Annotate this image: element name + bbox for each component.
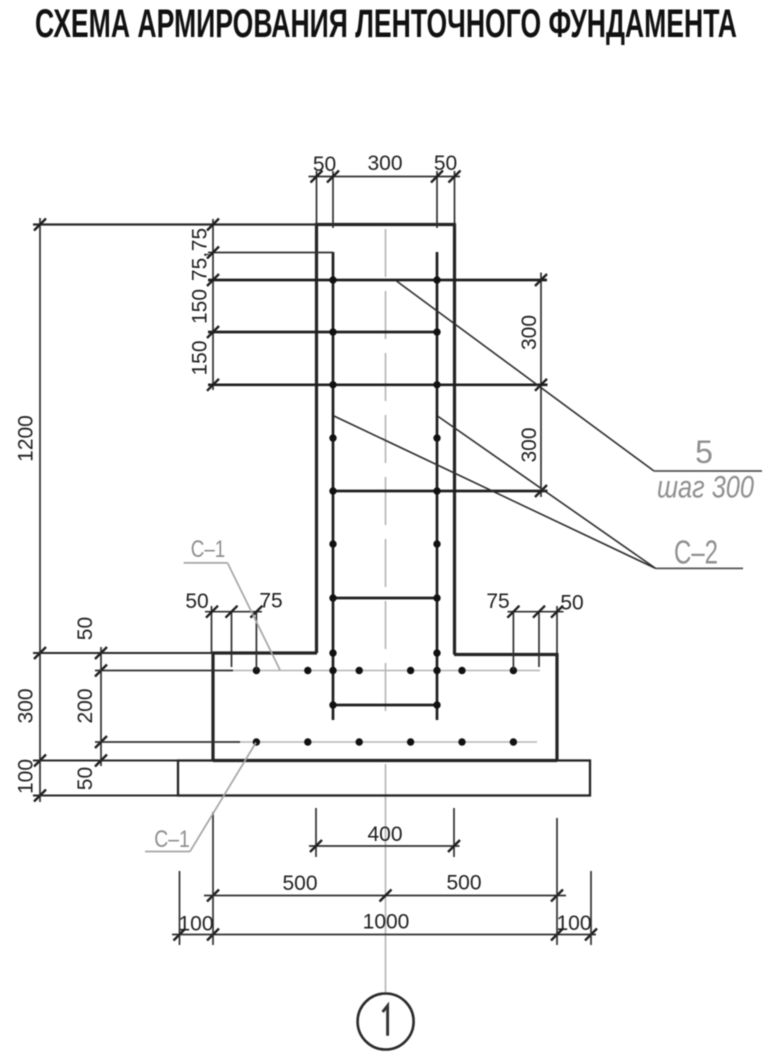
svg-text:100: 100 <box>556 912 591 935</box>
callout C-2 underline <box>656 567 743 569</box>
svg-text:200: 200 <box>74 688 97 723</box>
stem left wall <box>315 225 318 654</box>
bottom extension footing right <box>556 818 558 945</box>
C-1 upper leader <box>228 563 281 670</box>
right chain ticks <box>535 274 547 497</box>
leader line C-2 from left bar <box>334 416 656 568</box>
svg-text:50: 50 <box>74 767 97 790</box>
mid dim line left 50-75 <box>205 611 262 613</box>
bedding bottom extension to chain <box>33 795 178 797</box>
svg-text:150: 150 <box>189 340 212 375</box>
left inner chain line x=101 <box>100 647 102 766</box>
svg-text:1000: 1000 <box>363 911 410 934</box>
top dimension line 50-300-50 <box>309 176 461 178</box>
dim 400 line <box>309 845 460 847</box>
svg-text:300: 300 <box>518 315 541 350</box>
mid dim right ticks <box>507 606 563 618</box>
svg-text:С–2: С–2 <box>674 534 718 571</box>
svg-text:75: 75 <box>486 590 509 613</box>
dim 500-500 line <box>204 895 566 897</box>
svg-text:50: 50 <box>74 617 97 640</box>
left inner chain ticks <box>95 647 107 767</box>
footing top left edge <box>213 651 317 654</box>
lower mesh bar C-1 <box>235 741 537 743</box>
stem right wall <box>453 225 456 655</box>
footing top extension to chains <box>33 652 213 654</box>
svg-text:1200: 1200 <box>15 415 38 462</box>
rebar top mark line <box>208 252 333 254</box>
dim 100-1000-100 line <box>172 934 596 936</box>
lower mesh dots <box>253 738 517 745</box>
svg-text:С–1: С–1 <box>191 536 226 563</box>
chain extension at 670 <box>95 670 233 672</box>
tie at 705 lowest <box>333 704 437 707</box>
rebar dots in stem <box>329 276 440 708</box>
svg-text:50: 50 <box>185 590 208 613</box>
svg-text:100: 100 <box>178 913 213 936</box>
right chain line x=541 <box>540 273 542 498</box>
line at stem top to chain <box>33 223 316 225</box>
svg-text:5: 5 <box>695 434 713 470</box>
upper mesh dots <box>253 667 517 674</box>
top dim extension lines <box>317 171 455 228</box>
svg-text:500: 500 <box>446 872 481 895</box>
svg-text:400: 400 <box>367 823 402 846</box>
dim 400 ticks <box>310 840 460 852</box>
dim 500 ticks <box>207 890 563 902</box>
svg-text:300: 300 <box>15 688 38 723</box>
section mark digit <box>383 1006 388 1036</box>
top dim ticks <box>311 171 461 183</box>
leader line to stirrup 5 <box>397 281 655 471</box>
svg-text:75: 75 <box>189 228 212 251</box>
tie at 280 <box>208 279 547 282</box>
svg-text:50: 50 <box>434 152 457 175</box>
left outer chain ticks <box>34 219 46 802</box>
left outer chain line x=40 <box>39 218 41 802</box>
footing left edge <box>211 652 214 761</box>
svg-text:100: 100 <box>15 759 38 794</box>
C-1 lower underline <box>145 851 190 853</box>
bottom extension bedding left <box>179 871 181 945</box>
footing right edge <box>555 653 558 761</box>
tie at 332 <box>208 331 437 334</box>
leader line C-2 from right bar <box>438 416 656 568</box>
svg-text:300: 300 <box>518 427 541 462</box>
footing top right edge <box>454 653 557 656</box>
tie at 491 <box>333 490 548 493</box>
centerline of section <box>385 229 387 722</box>
svg-text:шаг 300: шаг 300 <box>657 469 754 505</box>
dim 400 extensions <box>316 808 454 857</box>
C-1 lower leader <box>190 743 256 852</box>
svg-text:75: 75 <box>259 590 282 613</box>
callout 5 underline <box>654 470 762 472</box>
tie at 598 <box>333 597 437 600</box>
C-1 upper underline <box>184 562 228 564</box>
bottom extension footing left <box>212 812 214 945</box>
upper mesh bar C-1 <box>225 670 540 672</box>
mid dim right extensions <box>513 606 557 670</box>
footing bottom extension to chains <box>33 760 178 762</box>
svg-text:СХЕМА АРМИРОВАНИЯ ЛЕНТОЧНОГО Ф: СХЕМА АРМИРОВАНИЯ ЛЕНТОЧНОГО ФУНДАМЕНТА <box>35 2 737 46</box>
centerline lower part <box>385 764 387 992</box>
svg-text:50: 50 <box>313 153 336 176</box>
left upper chain line x=213 <box>212 219 214 390</box>
mid dim left extensions <box>212 606 257 670</box>
rebar right vertical bar <box>436 252 439 720</box>
chain extension at 742 <box>95 741 240 743</box>
left upper chain ticks <box>207 219 219 391</box>
bottom extension bedding right <box>590 871 592 945</box>
mid dim left ticks <box>206 606 262 618</box>
tie at 385 <box>208 383 548 386</box>
rebar left vertical bar <box>332 252 335 720</box>
bedding slab outline <box>178 761 590 796</box>
svg-text:150: 150 <box>189 289 212 324</box>
svg-text:С–1: С–1 <box>154 826 190 853</box>
svg-text:300: 300 <box>367 152 402 175</box>
svg-text:75,: 75, <box>189 252 212 281</box>
section mark circle 1 <box>358 994 414 1050</box>
svg-text:50: 50 <box>560 592 583 615</box>
dim 1000 ticks <box>174 929 598 941</box>
mid dim line right 75-50 <box>508 611 564 613</box>
svg-text:500: 500 <box>282 872 317 895</box>
footing bottom edge <box>213 759 557 762</box>
stem top edge <box>315 223 456 226</box>
